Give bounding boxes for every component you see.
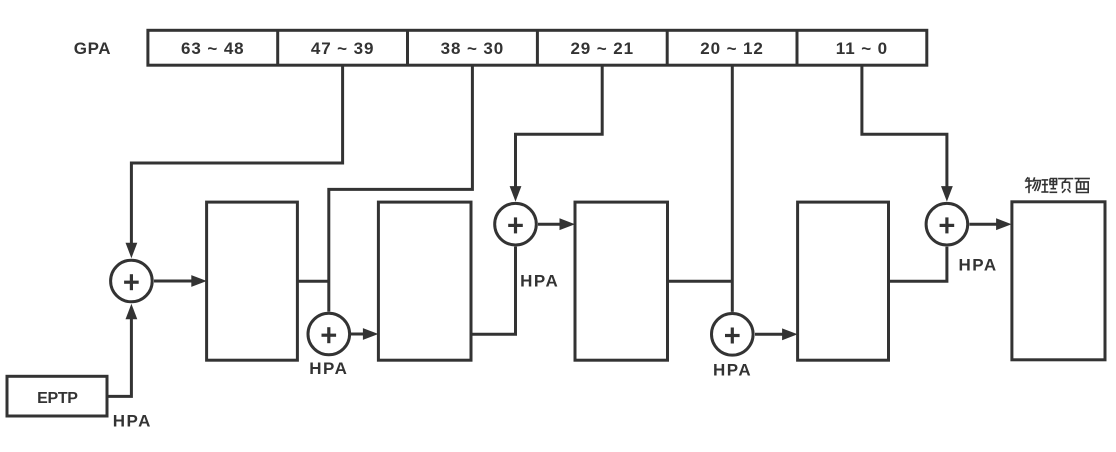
wire table box 4 to adder 5 (889, 247, 947, 282)
EPTP box (7, 376, 107, 416)
svg-text:HPA: HPA (309, 359, 348, 378)
label 物理页面 (physical page, drawn as vector strokes) (1025, 177, 1090, 193)
wire cell 38~30 to adder 2 (329, 65, 473, 311)
table box 3 (575, 202, 668, 360)
svg-text:11 ~ 0: 11 ~ 0 (836, 39, 888, 58)
plus sign adder 2 (322, 334, 337, 337)
svg-text:HPA: HPA (113, 412, 152, 431)
arrowhead into adder 3 top (510, 186, 522, 202)
glyph 页 (1058, 179, 1073, 193)
arrowhead into adder 1 bottom (126, 304, 138, 320)
wire adder 2 to table box 2 (349, 333, 363, 336)
svg-text:20 ~ 12: 20 ~ 12 (700, 39, 764, 58)
wire table box 3 output T-junction (668, 280, 733, 283)
wire cell 29~21 to adder 3 (516, 65, 603, 186)
adder circle 5 (926, 203, 968, 245)
table box 2 (378, 202, 471, 360)
arrowhead into physical page box (996, 218, 1012, 230)
glyph 面 (1075, 179, 1090, 193)
wire table box 2 to adder 3 (471, 247, 516, 335)
GPA bit-field box (148, 30, 927, 65)
cell divider 5 (796, 30, 799, 65)
wire cell 11~0 to adder 5 (862, 65, 947, 186)
glyph 物 (1025, 177, 1041, 193)
table box 1 (207, 202, 298, 360)
plus sign adder 1 (124, 281, 139, 284)
glyph 理 (1041, 179, 1057, 193)
svg-text:47 ~ 39: 47 ~ 39 (311, 39, 375, 58)
svg-text:GPA: GPA (74, 39, 111, 58)
cell divider 4 (666, 30, 669, 65)
table box 4 (798, 202, 889, 360)
cell divider 2 (406, 30, 409, 65)
arrowhead into adder 1 top (126, 243, 138, 259)
svg-text:63 ~ 48: 63 ~ 48 (181, 39, 245, 58)
svg-text:HPA: HPA (520, 272, 559, 291)
plus sign adder 5 (940, 224, 955, 227)
plus sign adder 4 (725, 334, 740, 337)
plus sign adder 3 (508, 224, 523, 227)
wire table box 1 output T-junction (297, 280, 328, 283)
wire adder 5 to physical page box (969, 223, 996, 226)
cell divider 1 (276, 30, 279, 65)
wire cell 47~39 to adder 1 (131, 65, 342, 243)
adder circle 1 (111, 260, 153, 302)
adder circle 2 (308, 313, 350, 355)
wire EPTP to adder 1 (107, 319, 131, 397)
adder circle 4 (712, 314, 754, 356)
arrowhead into adder 5 top (941, 186, 953, 202)
wire adder 4 to table box 4 (755, 333, 783, 336)
svg-text:HPA: HPA (713, 361, 752, 380)
cell divider 3 (536, 30, 539, 65)
arrowhead into table box 3 (560, 218, 576, 230)
physical page box (1012, 202, 1105, 360)
arrowhead into table box 2 (363, 328, 379, 340)
wire adder 1 to table box 1 (154, 280, 192, 283)
adder circle 3 (495, 203, 537, 245)
arrowhead into table box 4 (782, 328, 798, 340)
wire adder 3 to table box 3 (538, 223, 560, 226)
wire cell 20~12 to adder 4 (731, 65, 734, 312)
svg-text:29 ~ 21: 29 ~ 21 (570, 39, 634, 58)
svg-text:EPTP: EPTP (37, 390, 78, 407)
svg-text:HPA: HPA (959, 256, 998, 275)
arrowhead into table box 1 (191, 275, 207, 287)
svg-text:38 ~ 30: 38 ~ 30 (441, 39, 505, 58)
